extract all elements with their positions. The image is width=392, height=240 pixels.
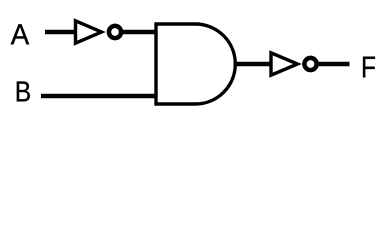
node F label — [363, 57, 375, 78]
wire U2 output to inverter U3 — [234, 62, 274, 67]
wire B to AND gate — [41, 94, 157, 99]
node B label — [17, 82, 30, 102]
wire U3 output to F — [317, 62, 350, 67]
AND gate U2 — [156, 24, 235, 104]
wire U1 output to AND gate — [121, 30, 157, 35]
inverter U1 triangle — [76, 21, 102, 43]
inverter U3 bubble — [304, 58, 316, 70]
node A label — [11, 24, 30, 44]
inverter U3 triangle — [271, 53, 298, 75]
wire A to inverter U1 — [45, 30, 77, 35]
inverter U1 bubble — [109, 26, 121, 38]
